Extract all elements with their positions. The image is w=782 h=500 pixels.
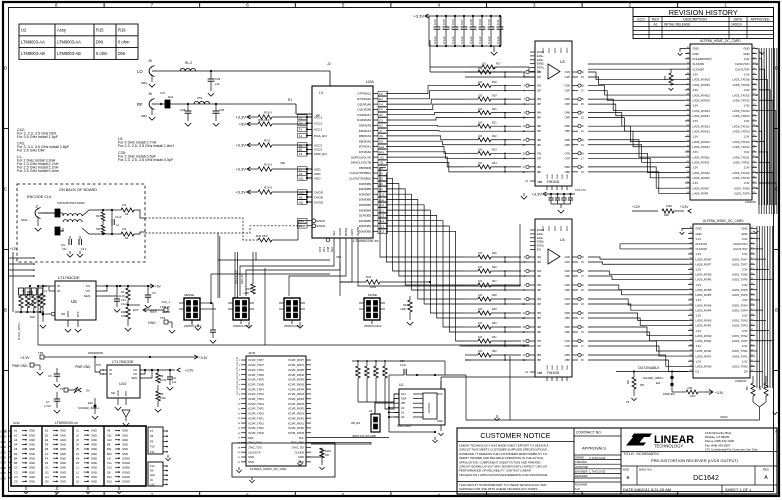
svg-text:R19: R19 — [492, 94, 497, 97]
svg-text:LVDS_RXN4: LVDS_RXN4 — [696, 303, 712, 307]
svg-text:I3P: I3P — [537, 102, 541, 106]
svg-text:CUSTOMER NOTICE: CUSTOMER NOTICE — [480, 431, 550, 440]
svg-text:O1P: O1P — [565, 75, 571, 79]
svg-text:OGND: OGND — [122, 461, 130, 465]
svg-text:GND: GND — [29, 447, 35, 451]
svg-text:B4: B4 — [14, 456, 18, 460]
svg-text:REV: REV — [763, 468, 769, 472]
svg-text:3.3V: 3.3V — [744, 150, 750, 154]
svg-text:REVISION HISTORY: REVISION HISTORY — [669, 8, 738, 17]
svg-text:R31: R31 — [492, 336, 497, 339]
svg-text:B8: B8 — [107, 443, 111, 447]
svg-text:LTM9003-AB: LTM9003-AB — [21, 51, 45, 56]
svg-text:3.3V: 3.3V — [165, 305, 171, 309]
svg-text:GND: GND — [741, 232, 747, 236]
svg-text:B1: B1 — [14, 452, 18, 456]
svg-text:1000: 1000 — [666, 204, 672, 208]
svg-text:EN7&: EN7& — [537, 244, 544, 248]
svg-text:GND: GND — [60, 456, 66, 460]
svg-text:O8N: O8N — [564, 353, 570, 357]
svg-text:K5: K5 — [76, 461, 80, 465]
svg-text:LVDS_TXP7: LVDS_TXP7 — [732, 262, 748, 266]
svg-text:PRE-DISTORTION RECEIVER (LVDS: PRE-DISTORTION RECEIVER (LVDS OUTPUT) — [651, 458, 739, 463]
svg-text:C39: C39 — [215, 77, 221, 81]
svg-text:R34: R34 — [246, 287, 251, 291]
svg-text:C48: C48 — [180, 108, 186, 112]
svg-text:1000: 1000 — [370, 285, 377, 289]
svg-text:A4: A4 — [14, 443, 18, 447]
svg-text:J6: J6 — [148, 92, 152, 96]
svg-text:C3.3: C3.3 — [81, 248, 87, 251]
svg-text:+12V: +12V — [632, 205, 641, 209]
svg-text:E2: E2 — [45, 433, 49, 437]
svg-text:A6: A6 — [369, 409, 373, 413]
svg-text:GND: GND — [91, 461, 97, 465]
svg-text:R24: R24 — [492, 162, 497, 165]
svg-text:TECHNOLOGY APPLICATIONS ENGINE: TECHNOLOGY APPLICATIONS ENGINEERING FOR … — [459, 473, 548, 477]
svg-text:D2N/DB4: D2N/DB4 — [359, 208, 372, 212]
svg-text:R41 DNI: R41 DNI — [256, 234, 268, 238]
svg-text:VCC: VCC — [554, 226, 557, 231]
svg-text:VCC: VCC — [566, 48, 569, 53]
svg-text:EN1/2: EN1/2 — [537, 50, 545, 54]
svg-text:0 ohm: 0 ohm — [118, 39, 130, 44]
svg-text:VCC: VCC — [548, 48, 551, 53]
svg-text:O1N: O1N — [564, 70, 570, 74]
svg-text:J3: J3 — [76, 438, 79, 442]
svg-text:GND: GND — [91, 433, 97, 437]
svg-text:LVDS_RXP16: LVDS_RXP16 — [693, 83, 711, 87]
svg-text:DA1: DA1 — [168, 95, 174, 99]
svg-text:C3: C3 — [299, 152, 303, 156]
svg-text:ENCP: ENCP — [317, 219, 326, 223]
svg-text:LVDS_TXN0: LVDS_TXN0 — [732, 364, 748, 368]
svg-text:R32: R32 — [492, 350, 497, 353]
svg-text:FIN1108: FIN1108 — [547, 371, 559, 375]
svg-text:O7N: O7N — [564, 339, 570, 343]
svg-text:C35: C35 — [219, 108, 225, 112]
svg-text:F7: F7 — [150, 429, 154, 433]
svg-text:AMP_EN: AMP_EN — [314, 152, 327, 156]
svg-text:G2: G2 — [45, 470, 49, 474]
svg-text:APPROVALS: APPROVALS — [582, 446, 606, 451]
svg-text:1.2V: 1.2V — [696, 359, 702, 363]
svg-text:D10P/DA7: D10P/DA7 — [357, 113, 371, 117]
svg-text:CLKIN1P: CLKIN1P — [696, 247, 708, 251]
svg-text:G4: G4 — [379, 102, 383, 106]
svg-text:ON BACK OF BOARD: ON BACK OF BOARD — [59, 188, 97, 192]
svg-text:+3.3V: +3.3V — [235, 143, 246, 148]
svg-text:TECHNOLOGY: TECHNOLOGY — [654, 444, 684, 449]
svg-text:DATE:6/8/2011 8:21:25 AM: DATE:6/8/2011 8:21:25 AM — [623, 487, 671, 492]
svg-text:O2N: O2N — [564, 269, 570, 273]
svg-text:LVDS_TXP16: LVDS_TXP16 — [733, 83, 750, 87]
svg-text:D0: D0 — [744, 370, 748, 374]
svg-text:GND: GND — [91, 466, 97, 470]
svg-text:OGND: OGND — [122, 470, 130, 474]
svg-text:GND: GND — [1, 472, 7, 475]
svg-text:DESCRIPTION: DESCRIPTION — [683, 18, 707, 22]
svg-text:ENCN: ENCN — [317, 224, 326, 228]
svg-text:O2N: O2N — [564, 84, 570, 88]
svg-text:R15: R15 — [96, 28, 104, 33]
svg-text:VCC: VCC — [560, 48, 563, 53]
svg-text:A1: A1 — [401, 410, 405, 414]
svg-text:MODE: MODE — [368, 293, 377, 297]
svg-text:GND: GND — [29, 443, 35, 447]
svg-text:3.3V: 3.3V — [742, 344, 748, 348]
svg-text:LVDS_RXN11: LVDS_RXN11 — [693, 155, 711, 159]
svg-text:J9: J9 — [148, 59, 152, 63]
svg-text:B5: B5 — [14, 461, 18, 465]
svg-text:LVDS_TXP13: LVDS_TXP13 — [733, 129, 750, 133]
svg-text:100: 100 — [478, 322, 483, 325]
svg-text:XCVR_TXN2: XCVR_TXN2 — [248, 412, 264, 416]
svg-text:LVDS_TXP5: LVDS_TXP5 — [732, 293, 748, 297]
svg-text:0.1uF: 0.1uF — [487, 36, 491, 44]
svg-text:A8: A8 — [107, 429, 111, 433]
svg-text:C21: C21 — [62, 248, 67, 251]
svg-text:A1: A1 — [14, 429, 18, 433]
svg-text:R2: R2 — [121, 290, 125, 294]
svg-text:DRAWN: DRAWN — [575, 457, 584, 460]
svg-text:LVDS_TXP15: LVDS_TXP15 — [733, 98, 750, 102]
svg-text:A2: A2 — [14, 433, 18, 437]
svg-text:B12: B12 — [107, 452, 112, 456]
svg-text:GND: GND — [91, 447, 97, 451]
svg-text:CLKOUT2P: CLKOUT2P — [735, 67, 750, 71]
svg-text:I4N: I4N — [537, 111, 541, 115]
svg-text:+2.5V: +2.5V — [185, 369, 194, 373]
svg-text:C30: C30 — [487, 19, 491, 25]
svg-text:XCVR_RXP4: XCVR_RXP4 — [288, 387, 304, 391]
svg-text:D0P/DB1: D0P/DB1 — [359, 224, 371, 228]
svg-text:C29: C29 — [478, 19, 482, 25]
svg-text:EN: EN — [537, 248, 541, 252]
svg-text:CLKIN2N: CLKIN2N — [693, 62, 705, 66]
svg-text:+5V: +5V — [155, 285, 162, 289]
svg-text:LVDS_RXP10: LVDS_RXP10 — [693, 176, 711, 180]
svg-text:LVDS_TXP6: LVDS_TXP6 — [732, 278, 748, 282]
svg-text:GND: GND — [91, 470, 97, 474]
svg-text:C26: C26 — [451, 19, 455, 25]
svg-text:GND: GND — [60, 429, 66, 433]
svg-text:GND: GND — [1, 436, 7, 439]
svg-text:ALTERA_HSMC_DC_CARD: ALTERA_HSMC_DC_CARD — [700, 39, 741, 43]
svg-text:100: 100 — [478, 135, 483, 138]
svg-text:OUT-ENABLE: OUT-ENABLE — [638, 366, 660, 370]
svg-text:GND: GND — [122, 429, 128, 433]
svg-text:D8N/DA2: D8N/DA2 — [359, 139, 372, 143]
svg-text:I2N: I2N — [537, 269, 541, 273]
svg-text:LVDS_RXN15: LVDS_RXN15 — [693, 93, 711, 97]
svg-text:H6: H6 — [299, 195, 303, 199]
svg-text:OGND: OGND — [122, 475, 130, 479]
svg-text:IN: IN — [57, 289, 60, 293]
svg-text:SENSE: SENSE — [184, 293, 194, 297]
svg-text:R62: R62 — [760, 385, 762, 390]
svg-text:GND: GND — [1, 477, 7, 480]
svg-text:CLKIN0: CLKIN0 — [295, 450, 305, 454]
svg-text:LVDS_RXP15: LVDS_RXP15 — [693, 98, 711, 102]
svg-text:LVDS_RXP3: LVDS_RXP3 — [696, 324, 712, 328]
svg-text:+3.3V: +3.3V — [235, 115, 246, 120]
svg-text:SCL: SCL — [299, 436, 305, 440]
svg-text:R45: R45 — [121, 310, 126, 314]
svg-text:WP: WP — [401, 401, 406, 405]
svg-text:R28: R28 — [492, 294, 497, 297]
svg-text:R29: R29 — [492, 308, 497, 311]
svg-text:CHECKED: CHECKED — [575, 461, 587, 464]
svg-text:U1: U1 — [399, 383, 403, 387]
svg-text:C12: C12 — [107, 466, 112, 470]
svg-text:J7: J7 — [379, 129, 382, 133]
svg-text:J4/J5: J4/J5 — [248, 351, 256, 355]
svg-text:0.1uF: 0.1uF — [442, 36, 446, 44]
svg-text:PWR GND: PWR GND — [12, 364, 28, 368]
svg-text:3.3V: 3.3V — [744, 166, 750, 170]
svg-text:B: B — [4, 308, 7, 313]
svg-text:F4: F4 — [379, 108, 383, 112]
svg-text:GND: GND — [567, 174, 569, 179]
svg-text:C.THOLGUIZ: C.THOLGUIZ — [589, 456, 606, 460]
svg-text:3.3V: 3.3V — [742, 252, 748, 256]
svg-text:O6N: O6N — [564, 325, 570, 329]
svg-text:F4: F4 — [45, 456, 49, 460]
svg-text:CLKOUTN/DB10: CLKOUTN/DB10 — [349, 177, 371, 181]
svg-text:V66: V66 — [336, 255, 342, 259]
svg-text:L5: L5 — [76, 480, 79, 484]
svg-text:I2P: I2P — [537, 89, 541, 93]
svg-text:C7: C7 — [46, 400, 50, 404]
svg-text:O7P: O7P — [565, 344, 571, 348]
svg-text:I4P: I4P — [537, 116, 541, 120]
svg-text:O6N: O6N — [564, 138, 570, 142]
svg-text:GND: GND — [29, 466, 35, 470]
svg-text:GND: GND — [122, 438, 128, 442]
svg-text:J1: J1 — [76, 429, 79, 433]
svg-text:DESIGNER: DESIGNER — [575, 475, 588, 478]
svg-text:LVDS_TXN11: LVDS_TXN11 — [733, 155, 750, 159]
svg-text:LVDS_TXN4: LVDS_TXN4 — [732, 303, 748, 307]
svg-text:RL-2: RL-2 — [185, 61, 192, 65]
svg-text:R33: R33 — [96, 215, 101, 218]
svg-text:C28: C28 — [469, 19, 473, 25]
svg-text:OVDD: OVDD — [314, 195, 324, 199]
svg-text:G5: G5 — [45, 480, 49, 484]
svg-text:GND: GND — [29, 438, 35, 442]
svg-text:GND: GND — [693, 47, 699, 51]
svg-text:GND: GND — [1, 431, 7, 434]
svg-text:0.1uF: 0.1uF — [400, 364, 407, 367]
svg-text:TITLE: SCHEMATIC: TITLE: SCHEMATIC — [623, 451, 659, 456]
svg-text:3.3V: 3.3V — [742, 298, 748, 302]
svg-text:ENCODE CLK: ENCODE CLK — [27, 195, 52, 199]
svg-text:SMA: SMA — [21, 218, 28, 222]
svg-text:GND: GND — [13, 421, 21, 425]
svg-text:D8: D8 — [107, 470, 111, 474]
svg-text:O1P: O1P — [565, 260, 571, 264]
svg-text:F5: F5 — [379, 92, 383, 96]
svg-text:C70-C73: C70-C73 — [575, 188, 586, 192]
svg-text:10K: 10K — [121, 314, 126, 318]
svg-text:XCVR_TXP4: XCVR_TXP4 — [248, 387, 264, 391]
svg-text:CLKOUT0: CLKOUT0 — [248, 450, 261, 454]
svg-text:+3.3V: +3.3V — [531, 192, 542, 197]
svg-text:R31: R31 — [403, 303, 408, 307]
svg-text:R61: R61 — [747, 385, 749, 390]
svg-text:XCVR_RXP1: XCVR_RXP1 — [288, 416, 304, 420]
svg-text:OGND: OGND — [122, 480, 130, 484]
svg-text:C24: C24 — [433, 19, 437, 25]
svg-text:+12V: +12V — [10, 247, 18, 251]
svg-text:VCC: VCC — [548, 226, 551, 231]
svg-text:3.3V: 3.3V — [693, 88, 699, 92]
svg-text:GND: GND — [562, 174, 564, 179]
svg-text:D5P/DFB: D5P/DFB — [359, 166, 371, 170]
svg-text:3.3V: 3.3V — [742, 283, 748, 287]
svg-text:LVDS_TXN15: LVDS_TXN15 — [732, 93, 750, 97]
svg-text:FILENAME:: FILENAME: — [575, 484, 588, 487]
svg-text:D6N/CLKOUTB: D6N/CLKOUTB — [351, 161, 371, 165]
svg-text:SHEET 1 OF 1: SHEET 1 OF 1 — [725, 487, 752, 492]
svg-text:D12: D12 — [107, 480, 112, 484]
svg-text:D7N/DA10: D7N/DA10 — [357, 97, 371, 101]
svg-text:A2: A2 — [401, 406, 405, 410]
svg-text:RF: RF — [137, 102, 143, 107]
svg-text:GND: GND — [91, 456, 97, 460]
svg-text:EN2+: EN2+ — [537, 54, 544, 58]
svg-text:I5N: I5N — [537, 311, 541, 315]
svg-text:D3N/DB6: D3N/DB6 — [359, 198, 372, 202]
svg-text:100: 100 — [122, 204, 127, 207]
svg-text:VO: VO — [86, 284, 91, 288]
svg-text:D3P/DB7: D3P/DB7 — [359, 192, 371, 196]
svg-text:VCC1: VCC1 — [314, 122, 323, 126]
svg-text:H2: H2 — [379, 124, 383, 128]
svg-text:390: 390 — [96, 228, 101, 231]
svg-text:SOLDER_JMPR-L: SOLDER_JMPR-L — [643, 377, 664, 380]
svg-text:D1: D1 — [299, 122, 303, 126]
svg-text:J4: J4 — [76, 443, 79, 447]
svg-text:100: 100 — [478, 108, 483, 111]
svg-text:LVDS_RXN0: LVDS_RXN0 — [696, 364, 712, 368]
svg-text:XCVR_TXN4: XCVR_TXN4 — [248, 392, 264, 396]
svg-text:I1P: I1P — [537, 75, 541, 79]
svg-text:100: 100 — [122, 228, 127, 231]
svg-text:C.THOLGUIZ: C.THOLGUIZ — [589, 470, 606, 474]
svg-text:TP5: TP5 — [38, 351, 44, 355]
svg-text:CLKOUT1N: CLKOUT1N — [733, 242, 748, 246]
svg-text:GND: GND — [29, 470, 35, 474]
svg-text:FIN1108: FIN1108 — [547, 180, 559, 184]
svg-text:F4: F4 — [299, 134, 303, 138]
svg-text:GND: GND — [91, 443, 97, 447]
svg-text:O8N: O8N — [564, 165, 570, 169]
svg-text:R17: R17 — [496, 63, 501, 66]
svg-text:D11: D11 — [107, 475, 112, 479]
svg-text:O3N: O3N — [564, 97, 570, 101]
svg-text:GND: GND — [741, 227, 747, 231]
svg-text:GND: GND — [1, 462, 7, 465]
svg-text:GND: GND — [743, 47, 749, 51]
svg-text:R1: R1 — [288, 98, 292, 102]
svg-text:D11: D11 — [299, 176, 304, 180]
svg-text:U5: U5 — [71, 299, 77, 304]
svg-text:LVDS_TXP1: LVDS_TXP1 — [732, 354, 748, 358]
svg-text:VBB: VBB — [537, 180, 542, 184]
svg-text:A5: A5 — [14, 447, 18, 451]
svg-text:0.1uF: 0.1uF — [496, 36, 500, 44]
svg-text:E1: E1 — [45, 429, 49, 433]
svg-text:1000: 1000 — [690, 395, 696, 398]
svg-text:O3N: O3N — [564, 283, 570, 287]
svg-text:H6: H6 — [150, 469, 154, 473]
svg-text:C17: C17 — [400, 360, 405, 363]
svg-text:U3: U3 — [560, 60, 565, 64]
svg-text:LVDS_RXN1: LVDS_RXN1 — [696, 349, 712, 353]
svg-text:K1: K1 — [76, 452, 80, 456]
svg-text:1.2V: 1.2V — [696, 252, 702, 256]
svg-text:GND: GND — [60, 447, 66, 451]
svg-text:A3: A3 — [14, 438, 18, 442]
svg-text:100: 100 — [478, 280, 483, 283]
svg-text:A0: A0 — [401, 415, 405, 419]
svg-text:100: 100 — [478, 162, 483, 165]
svg-text:C47: C47 — [160, 91, 166, 95]
svg-text:L4: L4 — [76, 475, 79, 479]
svg-text:XCVR_RXN6: XCVR_RXN6 — [288, 373, 305, 377]
svg-text:100: 100 — [478, 350, 483, 353]
svg-text:4.7uF: 4.7uF — [44, 404, 51, 408]
svg-text:3.3V: 3.3V — [744, 73, 750, 77]
svg-text:O1N: O1N — [564, 255, 570, 259]
svg-text:100: 100 — [478, 67, 483, 70]
svg-text:J6: J6 — [150, 478, 153, 482]
svg-text:LVDS_RXN14: LVDS_RXN14 — [693, 109, 711, 113]
svg-text:EN2+: EN2+ — [537, 232, 544, 236]
svg-text:EN3+: EN3+ — [537, 58, 544, 62]
svg-text:ALTERA_HSMC_DC_CARD: ALTERA_HSMC_DC_CARD — [703, 219, 744, 223]
svg-text:LVDS_RXN7: LVDS_RXN7 — [696, 257, 712, 261]
svg-text:LVDS_RXN6: LVDS_RXN6 — [696, 273, 712, 277]
svg-text:E4: E4 — [379, 97, 383, 101]
svg-text:APPROVED: APPROVED — [575, 466, 589, 469]
svg-text:I8P: I8P — [537, 170, 541, 174]
svg-text:LVDS_RXN16: LVDS_RXN16 — [693, 78, 711, 82]
svg-text:0 ohm: 0 ohm — [96, 51, 108, 56]
svg-text:LTC Confidential-For Customer: LTC Confidential-For Customer Use Only — [705, 447, 758, 451]
svg-text:LVDS_TXP9: LVDS_TXP9 — [734, 192, 750, 196]
svg-text:C11: C11 — [107, 461, 112, 465]
svg-text:GND: GND — [66, 311, 70, 317]
svg-text:D1: D1 — [696, 370, 700, 374]
svg-text:GND: GND — [91, 475, 97, 479]
svg-text:CLKOUT2N: CLKOUT2N — [735, 62, 750, 66]
svg-text:3.3V: 3.3V — [744, 119, 750, 123]
svg-text:32.4K: 32.4K — [118, 294, 125, 298]
svg-text:XCVR_RXN1: XCVR_RXN1 — [288, 421, 305, 425]
svg-text:R21: R21 — [492, 121, 497, 124]
svg-text:EN3+: EN3+ — [537, 236, 544, 240]
svg-text:XCVR_TXP2: XCVR_TXP2 — [248, 407, 264, 411]
svg-text:LVDS_TXP11: LVDS_TXP11 — [733, 160, 750, 164]
svg-text:EN5&: EN5& — [537, 62, 544, 66]
svg-text:1.2V: 1.2V — [696, 283, 702, 287]
svg-text:I2N: I2N — [537, 84, 541, 88]
svg-text:GND: GND — [696, 227, 702, 231]
svg-text:GND: GND — [557, 365, 559, 370]
